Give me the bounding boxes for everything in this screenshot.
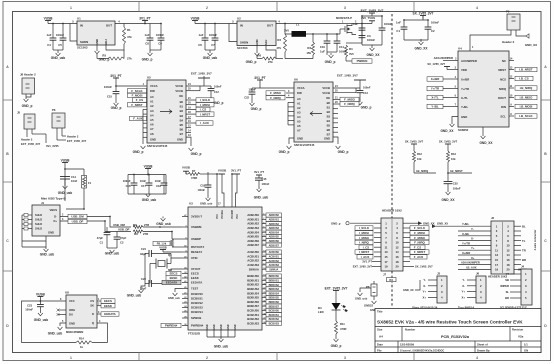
capacitor C25 100nF bbox=[447, 173, 449, 181]
svg-text:27R: 27R bbox=[144, 223, 149, 227]
svg-text:U8: U8 bbox=[65, 291, 69, 295]
power flag SX_1V65_3V7 (bypass) bbox=[420, 15, 426, 17]
wire VUSB to U1 IN bbox=[48, 23, 77, 25]
svg-text:J8 Header 2: J8 Header 2 bbox=[20, 73, 36, 77]
svg-text:19: 19 bbox=[495, 268, 499, 272]
svg-text:MOSFET/LP: MOSFET/LP bbox=[336, 16, 352, 20]
resistor RX 27R (DP) bbox=[133, 230, 143, 233]
net label I2B_NIRQ (pull-up) bbox=[413, 162, 415, 173]
svg-text:GND: GND bbox=[48, 231, 54, 235]
ground GND_p (U6 right) bbox=[333, 137, 338, 144]
net label F_MOSI (U5) bbox=[128, 93, 147, 97]
capacitor C14 10nF bbox=[60, 176, 70, 178]
svg-text:VCCB: VCCB bbox=[175, 89, 183, 93]
svg-text:F_NIRQ: F_NIRQ bbox=[344, 102, 355, 106]
svg-text:GND: GND bbox=[297, 137, 303, 141]
svg-text:SX8652 EVK V2a - 4/5 wire Resi: SX8652 EVK V2a - 4/5 wire Resistive Touc… bbox=[377, 319, 523, 324]
svg-text:I.B_NIRQ: I.B_NIRQ bbox=[520, 86, 533, 90]
svg-text:SX_1V65_3V7: SX_1V65_3V7 bbox=[439, 140, 458, 144]
svg-text:ADJ: ADJ bbox=[104, 39, 108, 45]
svg-text:SN74LVC8T245: SN74LVC8T245 bbox=[147, 144, 168, 148]
net label I_NRST (J7) bbox=[355, 250, 373, 254]
svg-text:AUX/WIPER: AUX/WIPER bbox=[461, 59, 477, 63]
power flag VUSB (bypass C16-18) bbox=[145, 168, 151, 170]
svg-text:VCCA: VCCA bbox=[297, 86, 305, 90]
wire cap bottoms bbox=[53, 49, 63, 51]
svg-text:Q: Q bbox=[92, 321, 94, 325]
ground GND_usb (C6/C7) bbox=[209, 50, 211, 53]
svg-text:X-: X- bbox=[462, 284, 465, 288]
svg-text:3: 3 bbox=[344, 356, 346, 360]
svg-text:18: 18 bbox=[395, 260, 399, 264]
ground GND_usb (C14) bbox=[64, 184, 66, 186]
svg-text:C6: C6 bbox=[198, 43, 202, 47]
svg-text:GND_p: GND_p bbox=[133, 150, 144, 154]
net label I_AUX (J7) bbox=[357, 255, 373, 259]
power flag VUSB (U2 input) bbox=[192, 20, 198, 22]
power flag 3V0_TVOS bbox=[352, 23, 372, 25]
svg-text:R4: R4 bbox=[349, 47, 353, 51]
svg-text:7k5: 7k5 bbox=[349, 52, 354, 56]
power flag EXT_1V65_3V7 (bypass) bbox=[369, 12, 375, 14]
svg-text:USB_DP: USB_DP bbox=[72, 220, 84, 224]
svg-text:Header 2: Header 2 bbox=[502, 40, 515, 44]
wire DM to U3 bbox=[160, 226, 182, 228]
net label F_AUX (U5) bbox=[130, 116, 147, 120]
svg-text:GND_usb: GND_usb bbox=[156, 222, 171, 226]
wire ADJ feedback bbox=[106, 44, 124, 50]
svg-text:B3: B3 bbox=[180, 114, 184, 118]
net label P7 jumper box bbox=[387, 278, 397, 282]
net label EEDATA (U3) bbox=[162, 280, 181, 284]
svg-text:X-: X- bbox=[471, 237, 474, 241]
net label I_SCLK (U5) bbox=[186, 99, 196, 101]
ground GND_usb (C15) bbox=[258, 188, 260, 190]
svg-text:Y-/BL: Y-/BL bbox=[462, 222, 469, 226]
svg-text:ADBUS6: ADBUS6 bbox=[269, 240, 280, 243]
svg-text:D+: D+ bbox=[53, 219, 57, 223]
svg-text:F_MISO: F_MISO bbox=[414, 236, 426, 240]
svg-text:BDBUS0: BDBUS0 bbox=[269, 275, 280, 278]
ground GND_p (C10/C11) bbox=[330, 53, 332, 55]
svg-text:Title: Title bbox=[377, 310, 383, 314]
svg-text:R14: R14 bbox=[79, 337, 84, 341]
svg-text:X+: X+ bbox=[423, 295, 427, 299]
ground GND_XX (C1/C2) bbox=[420, 39, 422, 42]
svg-text:C11: C11 bbox=[339, 45, 344, 49]
wire U5 unused B pins bbox=[186, 118, 191, 120]
svg-text:A0: A0 bbox=[150, 95, 154, 99]
svg-text:100nF: 100nF bbox=[249, 87, 257, 91]
svg-text:B7: B7 bbox=[327, 133, 331, 137]
svg-text:ADBUS4: ADBUS4 bbox=[269, 231, 280, 234]
wire VUSB to U2 IN bbox=[195, 23, 237, 25]
svg-text:Y+: Y+ bbox=[423, 290, 427, 294]
net label I_MISO (J7) bbox=[355, 235, 373, 239]
svg-text:1: 1 bbox=[70, 6, 72, 10]
svg-text:I.B_NRST: I.B_NRST bbox=[450, 169, 463, 173]
svg-text:F_MISO: F_MISO bbox=[270, 91, 282, 95]
svg-text:VCCB: VCCB bbox=[322, 86, 330, 90]
svg-text:GND: GND bbox=[235, 324, 237, 329]
ground GND_p (D4) bbox=[335, 338, 337, 340]
svg-text:B3: B3 bbox=[327, 115, 331, 119]
svg-text:EESK: EESK bbox=[191, 276, 200, 280]
wire DP to U3 bbox=[160, 232, 172, 240]
svg-text:A5: A5 bbox=[150, 118, 154, 122]
ground GND_p (U2) bbox=[256, 46, 258, 51]
svg-text:D-: D- bbox=[54, 215, 57, 219]
svg-text:IN: IN bbox=[80, 24, 83, 28]
svg-text:A3/AUX/WIPER: A3/AUX/WIPER bbox=[434, 56, 453, 60]
svg-text:ADBUS0: ADBUS0 bbox=[269, 214, 280, 217]
wire J2 left pins bbox=[458, 225, 491, 227]
svg-text:Sheet of: Sheet of bbox=[477, 342, 488, 346]
svg-text:C7: C7 bbox=[211, 43, 215, 47]
svg-text:GND: GND bbox=[461, 115, 467, 119]
svg-text:USB_DP: USB_DP bbox=[118, 227, 129, 231]
wire U1 SHDN tie to IN bbox=[70, 24, 77, 42]
net label I2B_MISO bbox=[509, 97, 514, 99]
svg-text:I.B_AUX: I.B_AUX bbox=[466, 265, 477, 269]
junction dots bbox=[109, 216, 111, 218]
svg-text:S:\users\..\SX8652EVKV2a.SCHDO: S:\users\..\SX8652EVKV2a.SCHDOC bbox=[400, 348, 444, 352]
svg-text:GND_usb: GND_usb bbox=[254, 196, 269, 200]
svg-text:3V1_PT: 3V1_PT bbox=[362, 260, 372, 264]
svg-text:NIRQ: NIRQ bbox=[499, 87, 507, 91]
svg-text:OUT: OUT bbox=[106, 24, 112, 28]
svg-text:DOUT: DOUT bbox=[498, 96, 506, 100]
svg-text:27k: 27k bbox=[268, 60, 273, 64]
capacitor C17 10nF bbox=[148, 175, 150, 184]
svg-text:10k: 10k bbox=[417, 157, 422, 161]
svg-text:I_MOSI: I_MOSI bbox=[200, 103, 210, 107]
svg-text:EECS: EECS bbox=[191, 272, 199, 276]
wire U8 ORG/DU stubs bbox=[58, 309, 66, 311]
svg-text:EECS: EECS bbox=[104, 299, 112, 303]
svg-text:R13: R13 bbox=[451, 152, 456, 156]
svg-text:A3: A3 bbox=[297, 111, 301, 115]
svg-text:Y+: Y+ bbox=[462, 290, 466, 294]
svg-text:XTOUT: XTOUT bbox=[191, 267, 201, 271]
svg-text:F1: F1 bbox=[88, 181, 92, 185]
svg-text:Y?: Y? bbox=[506, 272, 510, 276]
svg-text:13: 13 bbox=[384, 250, 388, 254]
capacitor C16 100nF bbox=[133, 175, 135, 184]
svg-text:VCCB: VCCB bbox=[322, 91, 330, 95]
power flag 3V1_PT (bypass) bbox=[113, 77, 119, 79]
svg-text:C24: C24 bbox=[141, 277, 146, 281]
net label PWREN bbox=[345, 57, 347, 61]
svg-text:LED: LED bbox=[318, 310, 324, 314]
svg-text:100nF: 100nF bbox=[25, 308, 33, 312]
svg-text:R12: R12 bbox=[417, 152, 422, 156]
wire P5 to GND_XX bbox=[516, 30, 526, 36]
wire P6 pins down bbox=[56, 128, 58, 140]
svg-text:SC1563: SC1563 bbox=[77, 46, 88, 50]
svg-text:J5: J5 bbox=[17, 111, 21, 115]
svg-text:27R: 27R bbox=[143, 232, 148, 236]
svg-text:1nF: 1nF bbox=[396, 21, 401, 25]
svg-text:3V1_3V05: 3V1_3V05 bbox=[46, 144, 59, 148]
net label PWREN# (U3) bbox=[161, 323, 181, 327]
svg-text:15: 15 bbox=[384, 255, 388, 259]
svg-text:R3: R3 bbox=[307, 46, 311, 50]
svg-text:BCBUS3: BCBUS3 bbox=[269, 322, 280, 325]
svg-text:GND_p: GND_p bbox=[331, 221, 341, 225]
resistor R8 1k5 (DP pull-up to RSTOUT#) bbox=[171, 239, 174, 247]
svg-text:I_SCLK: I_SCLK bbox=[359, 226, 370, 230]
svg-text:1k: 1k bbox=[80, 345, 83, 349]
svg-text:Size: Size bbox=[377, 328, 383, 332]
ground GND_p (C13) bbox=[359, 100, 361, 102]
svg-text:GND: GND bbox=[207, 324, 209, 329]
svg-text:P5: P5 bbox=[506, 10, 510, 14]
svg-text:I.B_NRST: I.B_NRST bbox=[519, 68, 532, 72]
wire U6 unused B pins bbox=[333, 108, 338, 110]
svg-text:20: 20 bbox=[395, 265, 399, 269]
svg-text:X-/TL: X-/TL bbox=[431, 96, 438, 100]
svg-text:GND_p: GND_p bbox=[111, 106, 122, 110]
svg-text:100nF: 100nF bbox=[156, 33, 164, 37]
ground GND_usb (C1/C2) bbox=[111, 249, 113, 251]
wire U5 unused A pins bbox=[143, 108, 147, 110]
net label F_MISO out (U6) bbox=[333, 98, 340, 100]
svg-text:M93C46WBN: M93C46WBN bbox=[66, 330, 83, 334]
svg-text:1uF: 1uF bbox=[199, 33, 204, 37]
svg-text:EXT_1V65_3V7: EXT_1V65_3V7 bbox=[361, 9, 384, 13]
net label I_NRST (U5) bbox=[186, 113, 196, 115]
svg-text:BCBUS0: BCBUS0 bbox=[269, 310, 280, 313]
svg-text:ACBUS2: ACBUS2 bbox=[269, 260, 280, 263]
net label F_SCLK (U5) bbox=[128, 89, 147, 93]
svg-text:F_NIRQ: F_NIRQ bbox=[414, 241, 425, 245]
resistor R6 27k bbox=[256, 56, 258, 59]
svg-text:I_MOSI: I_MOSI bbox=[359, 231, 369, 235]
wire J8 to ground bbox=[25, 94, 27, 99]
svg-text:A3: A3 bbox=[150, 109, 154, 113]
capacitor C2u 47pF bbox=[116, 232, 118, 238]
svg-text:SK: SK bbox=[90, 304, 94, 308]
crystal Q1 6MHz bbox=[171, 254, 182, 259]
svg-text:USBDM: USBDM bbox=[191, 225, 202, 229]
svg-text:DCBUS3: DCBUS3 bbox=[191, 306, 203, 310]
svg-text:DCBUS2: DCBUS2 bbox=[191, 301, 203, 305]
svg-text:GND_usb: GND_usb bbox=[200, 202, 213, 206]
svg-text:OE: OE bbox=[326, 96, 330, 100]
svg-text:27k: 27k bbox=[127, 57, 132, 61]
svg-text:USB_DM: USB_DM bbox=[113, 223, 125, 227]
resistor R4 7k5 bbox=[346, 42, 362, 44]
svg-text:A4: A4 bbox=[150, 113, 154, 117]
svg-text:SX8652: SX8652 bbox=[458, 128, 469, 132]
svg-text:18: 18 bbox=[506, 263, 510, 267]
led D4 bbox=[335, 294, 337, 304]
svg-text:100nF: 100nF bbox=[198, 188, 206, 192]
svg-text:Header 2: Header 2 bbox=[21, 138, 33, 142]
svg-text:Date: Date bbox=[377, 342, 383, 346]
svg-text:DU: DU bbox=[69, 313, 73, 317]
svg-text:F_NRST: F_NRST bbox=[414, 250, 425, 254]
svg-text:C23: C23 bbox=[27, 304, 32, 308]
svg-text:DIR: DIR bbox=[150, 89, 155, 93]
net label EECS (U3) bbox=[166, 271, 181, 275]
svg-text:EXT_1V65_3V7: EXT_1V65_3V7 bbox=[67, 139, 87, 143]
svg-text:BDBUS7: BDBUS7 bbox=[269, 305, 280, 308]
net label F_NIRQ (U6) bbox=[286, 97, 294, 99]
net label X+/BR wire bbox=[443, 78, 458, 80]
svg-text:ADBUS3: ADBUS3 bbox=[269, 227, 280, 230]
svg-text:GN: GN bbox=[524, 348, 528, 352]
wire F1 to VBUS bbox=[66, 188, 84, 209]
net label USB_DP (J1) bbox=[68, 219, 87, 223]
title block bbox=[375, 309, 541, 353]
ground GND_usb (J1) bbox=[45, 248, 47, 250]
net label F_CS (J7) bbox=[410, 245, 425, 249]
capacitor C17b 100nF bbox=[381, 22, 383, 28]
svg-text:GND: GND bbox=[255, 39, 259, 45]
svg-text:VUSB: VUSB bbox=[144, 164, 154, 168]
svg-text:SI/WUA: SI/WUA bbox=[269, 268, 278, 271]
svg-text:EESK: EESK bbox=[170, 276, 179, 280]
svg-text:V2a: V2a bbox=[518, 335, 524, 339]
svg-text:I_MISO: I_MISO bbox=[359, 236, 370, 240]
net label I_MOSI (U5) bbox=[186, 104, 196, 106]
svg-text:GND_p: GND_p bbox=[99, 58, 110, 62]
svg-text:C18: C18 bbox=[156, 184, 161, 188]
resistor R5 27k bbox=[123, 50, 125, 59]
svg-text:47k: 47k bbox=[127, 35, 132, 39]
svg-text:F_SCLK: F_SCLK bbox=[414, 226, 426, 230]
svg-text:DCBUS1: DCBUS1 bbox=[191, 297, 203, 301]
svg-text:EXT_1V65_3V7: EXT_1V65_3V7 bbox=[191, 72, 212, 76]
svg-text:B6: B6 bbox=[180, 128, 184, 132]
power flag VUSB (U1 input) bbox=[45, 20, 51, 22]
svg-text:BDBUS5: BDBUS5 bbox=[269, 297, 280, 300]
svg-text:C1: C1 bbox=[100, 241, 104, 245]
svg-text:BR: BR bbox=[522, 258, 526, 262]
svg-text:A7: A7 bbox=[150, 127, 154, 131]
capacitor C9 100nF bbox=[160, 24, 162, 39]
svg-text:GND_XX: GND_XX bbox=[414, 47, 428, 51]
capacitor C18 10nF bbox=[163, 175, 165, 184]
svg-text:C22: C22 bbox=[244, 96, 249, 100]
wire U8 GND bbox=[60, 323, 66, 326]
wire VUSB to U8 VCC bbox=[39, 300, 41, 302]
net label I2B_MOSI bbox=[509, 106, 514, 108]
wire U3 bottom ground stubs bbox=[206, 330, 208, 337]
wire J2 right pins bbox=[514, 225, 521, 227]
svg-text:ADBUS5: ADBUS5 bbox=[269, 236, 280, 239]
svg-text:GND_usb: GND_usb bbox=[355, 297, 368, 301]
power flag 3V1_PT (U6 VCCA) bbox=[257, 79, 263, 81]
svg-text:X+/BR: X+/BR bbox=[461, 78, 469, 82]
wire 3V0 rail bbox=[306, 33, 340, 35]
svg-text:J7: J7 bbox=[383, 273, 387, 277]
svg-text:I.B_MOSI: I.B_MOSI bbox=[520, 105, 533, 109]
svg-text:C12: C12 bbox=[214, 90, 219, 94]
svg-text:VUSB: VUSB bbox=[182, 166, 190, 170]
svg-text:U1: U1 bbox=[77, 17, 81, 21]
svg-text:3V3OUT: 3V3OUT bbox=[191, 215, 202, 219]
svg-text:SL: SL bbox=[506, 290, 510, 294]
svg-text:C4: C4 bbox=[47, 43, 51, 47]
svg-text:F_NRST: F_NRST bbox=[131, 103, 142, 107]
svg-text:GND_usb: GND_usb bbox=[51, 56, 66, 60]
capacitor C20 33pF bbox=[145, 253, 149, 255]
svg-text:C21: C21 bbox=[141, 247, 146, 251]
svg-text:PWREN#: PWREN# bbox=[165, 324, 178, 328]
wire 3V1_PT to U5 VCCA bbox=[116, 85, 147, 87]
svg-text:F_SCLK: F_SCLK bbox=[131, 89, 143, 93]
svg-text:B0: B0 bbox=[180, 100, 184, 104]
svg-text:12/14/2009: 12/14/2009 bbox=[400, 342, 414, 346]
svg-text:10nF: 10nF bbox=[155, 179, 162, 183]
svg-text:A7: A7 bbox=[297, 129, 301, 133]
svg-text:3V1: 3V1 bbox=[389, 280, 394, 282]
net label EESK (U8) bbox=[97, 305, 101, 307]
svg-text:L1: L1 bbox=[296, 23, 300, 27]
svg-text:A2: A2 bbox=[150, 104, 154, 108]
svg-text:B2: B2 bbox=[180, 109, 184, 113]
svg-text:B0: B0 bbox=[327, 101, 331, 105]
svg-text:SHDN: SHDN bbox=[80, 40, 88, 44]
net label F_MISO (J7) bbox=[410, 235, 429, 239]
svg-text:VCC: VCC bbox=[69, 299, 75, 303]
svg-text:J3: J3 bbox=[437, 272, 441, 276]
net label Y+/TR wire bbox=[443, 88, 458, 90]
svg-text:R2: R2 bbox=[277, 38, 281, 42]
ground GND_XX (J7 pin2) bbox=[410, 222, 418, 224]
svg-text:10k: 10k bbox=[451, 157, 456, 161]
svg-text:GND: GND bbox=[150, 138, 156, 142]
svg-text:1uF: 1uF bbox=[353, 22, 358, 26]
svg-text:10: 10 bbox=[395, 241, 399, 245]
svg-text:100nF: 100nF bbox=[104, 85, 112, 89]
svg-text:PWREN: PWREN bbox=[357, 59, 368, 63]
svg-text:Y+/TR: Y+/TR bbox=[461, 87, 469, 91]
svg-text:GND_usb: GND_usb bbox=[214, 345, 229, 349]
svg-text:100nF: 100nF bbox=[431, 21, 439, 25]
svg-text:GND_usb: GND_usb bbox=[203, 56, 218, 60]
resistor R11 470R bbox=[335, 310, 337, 321]
svg-text:14: 14 bbox=[395, 250, 399, 254]
svg-text:470R: 470R bbox=[191, 176, 197, 180]
svg-text:VBUS: VBUS bbox=[50, 208, 58, 212]
svg-text:WIPER: WIPER bbox=[500, 284, 509, 288]
svg-text:17: 17 bbox=[495, 263, 499, 267]
svg-text:3: 3 bbox=[344, 6, 346, 10]
net label F_NIRQ (J7) bbox=[410, 240, 429, 244]
svg-text:A3/AUX/WIPER: A3/AUX/WIPER bbox=[461, 261, 480, 265]
svg-text:F_AUX: F_AUX bbox=[133, 117, 143, 121]
svg-text:VCCIOA: VCCIOA bbox=[221, 210, 224, 219]
svg-text:I_AUX: I_AUX bbox=[361, 255, 370, 259]
svg-text:SB: SB bbox=[505, 278, 509, 282]
svg-text:SCL: SCL bbox=[500, 115, 506, 119]
ground GND_XX (J3) bbox=[415, 280, 420, 290]
net label F_CS (U5) bbox=[133, 98, 147, 102]
svg-text:Y+/TR: Y+/TR bbox=[431, 87, 440, 91]
svg-text:NCS: NCS bbox=[500, 78, 506, 82]
svg-text:C17: C17 bbox=[141, 184, 146, 188]
svg-text:A0: A0 bbox=[297, 97, 301, 101]
capacitor C4 1uF bbox=[52, 24, 54, 39]
svg-text:GND_XX: GND_XX bbox=[437, 222, 448, 226]
svg-text:VUSB: VUSB bbox=[36, 292, 46, 296]
svg-text:X-: X- bbox=[423, 284, 426, 288]
svg-text:X+/BR: X+/BR bbox=[431, 77, 441, 81]
